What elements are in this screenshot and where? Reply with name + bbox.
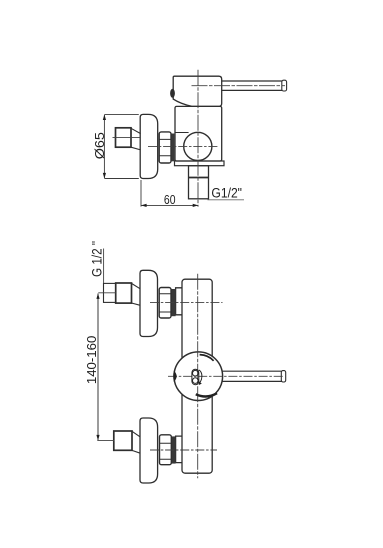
svg-text:G1/2": G1/2" [211, 186, 242, 202]
svg-text:60: 60 [164, 192, 176, 207]
svg-text:Ø65: Ø65 [92, 132, 107, 159]
svg-text:G 1/2 ": G 1/2 " [90, 241, 105, 277]
svg-text:140-160: 140-160 [84, 336, 99, 385]
